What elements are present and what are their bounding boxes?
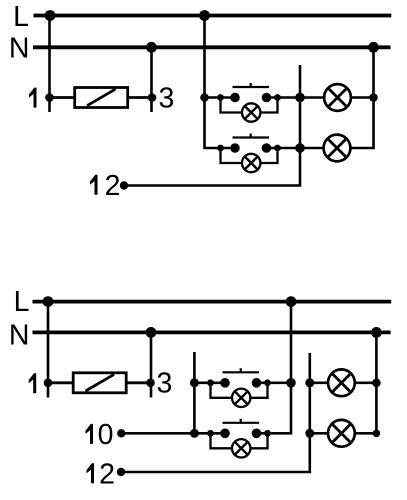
svg-text:3: 3 (157, 367, 173, 399)
svg-text:3: 3 (159, 82, 175, 114)
svg-text:L: L (14, 286, 30, 318)
svg-text:L: L (13, 1, 29, 33)
svg-text:0: 0 (98, 419, 114, 451)
svg-text:2: 2 (99, 458, 115, 490)
svg-text:N: N (9, 319, 30, 351)
svg-text:2: 2 (105, 170, 121, 202)
svg-text:N: N (9, 32, 30, 64)
